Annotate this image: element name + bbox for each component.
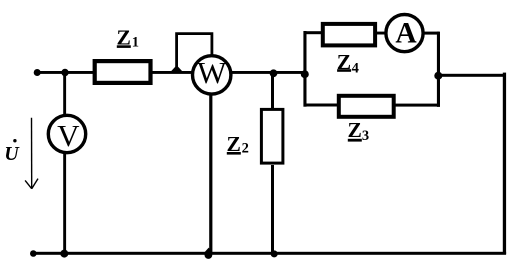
impedance Z4 xyxy=(323,24,375,46)
wire bottom return xyxy=(34,252,507,255)
label Z4 xyxy=(337,50,359,77)
node V-branch top xyxy=(61,69,68,76)
wire Z4 to ammeter xyxy=(376,32,386,35)
wire Z2 upper xyxy=(271,73,274,110)
wire top main segment xyxy=(37,71,306,74)
label Z3 xyxy=(348,118,370,144)
terminal top-left xyxy=(34,69,41,76)
svg-text:W: W xyxy=(197,55,227,90)
svg-text:2: 2 xyxy=(242,140,249,156)
wire W bottom xyxy=(209,94,212,254)
wire top branch to Z4 xyxy=(305,31,321,34)
label Z1 xyxy=(117,26,140,51)
wire V branch lower xyxy=(63,152,66,254)
arrow U direction xyxy=(25,118,38,189)
label Z2 xyxy=(227,132,249,157)
impedance Z1 xyxy=(95,61,151,83)
wire output right vertical xyxy=(503,73,506,254)
svg-text:3: 3 xyxy=(362,128,369,144)
wattmeter W xyxy=(193,55,231,94)
junction W bottom xyxy=(204,248,212,259)
ammeter A1 xyxy=(386,14,423,51)
junction wattmeter voltage-coil tap xyxy=(171,65,183,71)
wire ammeter to right vertical xyxy=(424,32,440,35)
svg-text:V: V xyxy=(57,118,80,153)
node Z2 top xyxy=(270,69,278,77)
wire parallel-section left vertical xyxy=(303,31,306,107)
wattmeter voltage-coil loop xyxy=(177,34,212,71)
node parallel-section left xyxy=(301,70,309,78)
terminal bottom-left xyxy=(30,250,37,257)
impedance Z2 xyxy=(261,109,283,163)
wire bottom branch to Z3 xyxy=(305,104,338,107)
svg-text:1: 1 xyxy=(132,34,139,50)
svg-text:Z: Z xyxy=(348,118,362,142)
wire Z3 to right vertical xyxy=(393,104,438,107)
voltmeter V1 xyxy=(48,115,85,153)
svg-text:U: U xyxy=(4,143,20,165)
wire parallel-section right vertical xyxy=(437,32,440,107)
wire Z2 lower xyxy=(271,165,274,254)
wire output right horizontal xyxy=(438,74,506,77)
svg-text:4: 4 xyxy=(352,60,359,76)
svg-text:A: A xyxy=(395,18,417,50)
impedance Z3 xyxy=(339,96,394,117)
junction Z2 bottom xyxy=(271,250,278,257)
node V-branch bottom xyxy=(60,250,68,258)
label U (source voltage phasor) xyxy=(4,139,20,165)
wire V branch upper xyxy=(63,72,66,115)
node parallel-section right xyxy=(434,72,442,80)
